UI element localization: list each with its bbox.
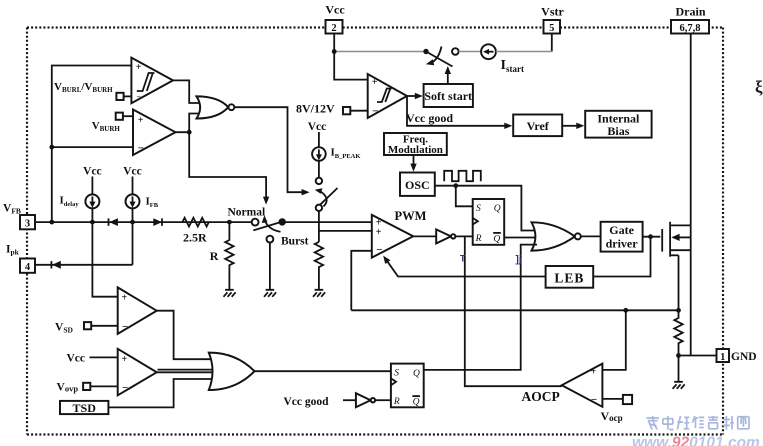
wire U_BURST2 output route to NOR (175, 114, 199, 133)
switch SW_normal common contact (279, 218, 286, 225)
svg-text:T: T (460, 254, 466, 264)
junction node sense rail / Rsense (676, 308, 681, 313)
svg-text:Bias: Bias (607, 124, 629, 138)
wire U_BURST2 minus input from VFB bus (52, 146, 133, 148)
svg-text:Drain: Drain (676, 4, 706, 18)
junction node VFB bus (49, 220, 54, 225)
wire Vref to Internal Bias arrow (562, 123, 584, 129)
wire Vcc good to inverter (343, 399, 356, 401)
node Vcc input label (67, 352, 118, 364)
switch SW_normal motion arc with up arrowhead (262, 215, 281, 232)
wire common contact to PWM plus input (282, 221, 372, 223)
junction node sense rail / AOCP plus riser (623, 308, 628, 313)
svg-text:Vcc good: Vcc good (406, 111, 453, 125)
diode D3 (51, 261, 60, 269)
block Vref (513, 115, 562, 137)
svg-text:Burst: Burst (281, 235, 309, 247)
svg-text:Modulation: Modulation (388, 144, 443, 156)
op-amp U_UVLO 8V/12V comparator (368, 74, 407, 118)
switch SW_burst contact (267, 235, 309, 289)
wire I_delay node to VSD comparator plus (92, 222, 117, 297)
svg-text:+: + (138, 115, 144, 126)
wire GND node to pin 1 (679, 355, 717, 357)
svg-text:Vcc: Vcc (308, 121, 327, 133)
svg-text:OSC: OSC (405, 178, 430, 192)
svg-text:−: − (122, 382, 128, 394)
svg-text:Vcc: Vcc (83, 165, 102, 177)
svg-text:4: 4 (25, 262, 31, 273)
inverter U_INV (356, 393, 375, 407)
block OSC (400, 173, 435, 196)
watermark Chinese text (647, 416, 750, 430)
node VBURL/VBURH input square (54, 81, 131, 100)
wire latch U3 Q riser to NOR2 bottom input (424, 245, 537, 370)
svg-text:Vcc: Vcc (123, 165, 142, 177)
svg-text:LEB: LEB (554, 270, 584, 285)
svg-text:R: R (210, 249, 219, 263)
wire LEB feedback loop (593, 237, 650, 277)
wire Vcc good net to Vref with arrowhead (406, 96, 512, 129)
ground symbol under R (224, 290, 236, 297)
svg-text:Vcc good: Vcc good (284, 396, 330, 408)
svg-text:S: S (476, 204, 481, 214)
junction node I_delay / VSD sense (90, 220, 95, 225)
wire AOCP reset net vertical (465, 236, 562, 386)
svg-text:R: R (475, 234, 482, 244)
wire current sense rail to AOCP (351, 309, 678, 311)
wire Vcc rail (gray) pin2 to start switch (334, 51, 423, 53)
op-amp U_AOCP comparator (522, 364, 603, 407)
wire Drain to MOSFET drain (690, 34, 692, 226)
svg-text:GND: GND (731, 351, 757, 363)
flip-flop U2 SR latch (473, 199, 505, 245)
switch SW_normal blade (253, 222, 282, 231)
current source I_B_PEAK (308, 121, 361, 178)
svg-text:www.920101.com: www.920101.com (632, 435, 760, 446)
svg-text:−: − (591, 394, 597, 406)
svg-text:PWM: PWM (395, 209, 427, 223)
logic gate OR1 fault (209, 353, 255, 390)
switch SW_bpeak motion arc with arrowhead (315, 188, 327, 206)
svg-text:Vstr: Vstr (541, 4, 564, 18)
wire NOR1 output to burst-mode switch arrow (234, 107, 309, 195)
svg-text:+: + (376, 227, 382, 238)
flip-flop U3 fault latch (391, 364, 424, 408)
svg-text:2.5R: 2.5R (183, 230, 207, 244)
wire AOCP plus input from sense rail (602, 310, 625, 370)
wire OR1 output to latch U3 S input (255, 370, 391, 372)
transistor Q1 SenseFET (662, 222, 691, 257)
block TSD (60, 401, 108, 415)
svg-text:−: − (136, 93, 141, 102)
svg-text:+: + (122, 293, 128, 304)
pin 3 VFB (3, 203, 35, 230)
svg-text:Q: Q (413, 398, 420, 408)
svg-text:Vcc: Vcc (325, 3, 345, 17)
wire U_BURST1 output route to NOR (173, 80, 199, 103)
resistor 2.5R (182, 218, 208, 245)
svg-text:Q: Q (413, 369, 420, 379)
junction node GND (676, 353, 681, 358)
wire TSD route to OR gate (108, 379, 214, 407)
ground symbol main (673, 356, 685, 389)
svg-text:6,7,8: 6,7,8 (680, 23, 701, 34)
svg-text:2: 2 (331, 23, 336, 34)
svg-text:+: + (136, 62, 142, 73)
wire Freq. Modulation down-arrow to OSC (410, 155, 416, 172)
switch SW_start common contact (423, 49, 428, 54)
ground symbol under R_burst (313, 290, 325, 297)
node Vocp input square (601, 395, 633, 423)
block LEB (546, 266, 594, 288)
diode D2 (153, 218, 162, 226)
svg-text:Gate: Gate (609, 223, 634, 237)
svg-text:Vcc: Vcc (67, 352, 86, 364)
svg-text:Q: Q (493, 234, 500, 244)
svg-text:AOCP: AOCP (522, 389, 560, 404)
block Internal Bias (585, 111, 651, 138)
wire divider node to PWM second plus input (319, 230, 372, 232)
wire PWM minus input from current sense rail (351, 251, 372, 310)
wire PWM output to buffer (413, 235, 436, 237)
block Freq. Modulation (384, 133, 447, 156)
svg-text:Vovp: Vovp (57, 381, 79, 393)
wire NOR2 output to Gate driver (581, 235, 601, 237)
svg-text:driver: driver (606, 237, 639, 251)
wire sense tap down to sense node (678, 255, 680, 310)
svg-text:8V/12V: 8V/12V (296, 101, 335, 115)
wire latch U2 Qbar output to NOR2 gate (504, 237, 537, 239)
inverter U_BUF (436, 229, 455, 243)
switch SW_bpeak top contact (316, 178, 322, 184)
wire SW_bpeak to divider node and resistor (318, 211, 320, 242)
svg-text:+: + (122, 354, 128, 365)
resistor R_burst to ground (315, 242, 323, 290)
diode D1 (109, 218, 118, 226)
wire OSC output to NOR riser (435, 186, 537, 231)
wire open contact to I_start (gray) (459, 51, 481, 53)
svg-text:+: + (591, 366, 597, 377)
pin 4 Ipk (6, 244, 35, 273)
pin 1 GND (717, 349, 757, 363)
block Gate driver (601, 222, 643, 252)
wire I_start to Vstr pin (gray) (496, 51, 552, 53)
wire Vcc down to UVLO comparator (334, 52, 368, 80)
switch SW_bpeak blade (320, 188, 338, 205)
pin 5 Vstr (541, 4, 564, 51)
switch SW_start blade (426, 52, 453, 67)
op-amp U_BURST1 hysteresis comparator (131, 58, 173, 103)
wire U_BURST2 route down to Normal switch arrow (189, 132, 269, 204)
pins 6,7,8 Drain (671, 4, 709, 34)
svg-text:Vref: Vref (527, 119, 550, 133)
svg-text:]j: ]j (516, 255, 522, 266)
pin 2 Vcc (325, 3, 345, 52)
switch SW_normal open contact (252, 219, 259, 226)
svg-text:Normal: Normal (228, 206, 266, 218)
op-amp U_OVP comparator (118, 349, 157, 396)
wire Gate driver output to MOSFET gate (643, 236, 661, 238)
svg-text:−: − (122, 321, 128, 333)
svg-text:−: − (372, 106, 378, 118)
wire inverter output to latch U3 R input (375, 399, 391, 401)
svg-text:−: − (376, 244, 382, 256)
current source I_delay (60, 165, 102, 222)
wire VFB pin to main feedback rail (35, 221, 252, 223)
op-amp U_VSD comparator (118, 287, 157, 334)
wire U_VSD output route to OR gate (157, 311, 214, 360)
svg-text:3: 3 (25, 218, 30, 229)
wire U_OVP output to OR gate (157, 370, 217, 373)
junction node gate/LEB (648, 234, 653, 239)
junction node Vcc pin2 (332, 49, 337, 54)
clock waveform symbol (444, 171, 481, 181)
node Vovp input square (57, 381, 118, 393)
block Soft start (424, 84, 473, 107)
resistor R_sense (674, 310, 682, 355)
logic gate NOR1 burst (197, 96, 235, 118)
current source I_start (481, 44, 524, 74)
switch SW_start motion arc with arrowhead (431, 47, 442, 63)
op-amp U_BURST2 comparator (133, 110, 175, 156)
wire buffer output to latch U2 R input (455, 235, 472, 237)
svg-text:ξ: ξ (755, 78, 763, 97)
wire LEB output to PWM with arrowhead (383, 256, 545, 277)
junction node I_FB / Ipk (130, 220, 135, 225)
svg-text:+: + (372, 77, 378, 88)
switch SW_bpeak bottom contact (316, 205, 322, 211)
svg-text:TSD: TSD (73, 401, 97, 415)
current source I_FB (123, 165, 159, 222)
svg-text:Q: Q (494, 204, 501, 214)
junction node divider (227, 220, 232, 225)
wire MOSFET source down to GND rail (690, 225, 692, 355)
ground symbol under Burst (264, 290, 276, 297)
wire Soft start up-arrow to switch (445, 66, 451, 84)
switch SW_start open contact (452, 48, 459, 55)
svg-text:Soft start: Soft start (424, 89, 472, 103)
wire S input drop to latch U2 (456, 186, 473, 207)
svg-text:1: 1 (720, 352, 725, 363)
svg-text:−: − (138, 143, 144, 155)
junction node VFB bus / minus input (49, 145, 54, 150)
node 8V/12V input square (296, 101, 368, 115)
svg-text:5: 5 (549, 23, 554, 34)
svg-text:R: R (393, 397, 400, 407)
op-amp U_PWM comparator (372, 209, 427, 258)
node VBURH input square (92, 113, 133, 134)
junction node U_BURST2 output (187, 130, 192, 135)
wire Ipk pin to I_FB node (35, 222, 133, 265)
wire VFB input bus vertical to burst comparators (52, 66, 132, 223)
svg-text:S: S (394, 368, 399, 378)
logic gate NOR2 gate-drive (532, 222, 581, 250)
node VSD input square (55, 321, 118, 334)
wire UVLO output arrow to Soft start (407, 93, 423, 99)
junction node OSC/S (453, 183, 458, 188)
resistor R to ground (210, 222, 234, 290)
